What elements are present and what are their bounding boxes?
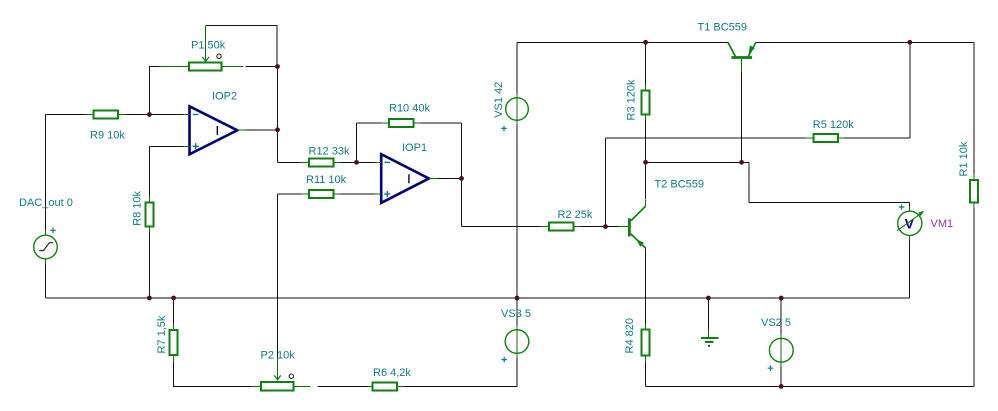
wire: R10 right lead to drop xyxy=(420,122,462,124)
wire: junction to IOP1 inverting input xyxy=(357,161,376,163)
wire: voltmeter bottom to middle rail xyxy=(909,240,911,298)
wire: T2 collector riser to 162 row xyxy=(645,162,647,199)
wire: VS2 bottom stub xyxy=(780,366,782,387)
wire: VS1 bottom to middle rail xyxy=(516,125,518,299)
transistor T1 BC559 xyxy=(728,42,756,72)
wire: R9 right to IOP2 inverting input xyxy=(126,114,184,116)
wire: T1 base vertical xyxy=(741,71,743,162)
plus mark: DAC_out xyxy=(50,228,56,234)
wire: IOP2 plus input down to R8 xyxy=(148,146,150,197)
wire: row 162 from R3 bottom to T1 base xyxy=(646,161,742,163)
wire: DAC left column vertical xyxy=(45,115,47,232)
resistor R3 120k xyxy=(642,85,650,120)
svg-text:VS3 5: VS3 5 xyxy=(501,308,531,320)
svg-text:VM1: VM1 xyxy=(931,218,954,230)
node: R3 top on supply rail xyxy=(643,40,648,45)
wire: top rail right segment xyxy=(756,41,974,43)
resistor R1 10k xyxy=(970,175,978,209)
source VS3 5 xyxy=(505,325,529,358)
svg-text:R11 10k: R11 10k xyxy=(306,174,347,186)
resistor R10 40k xyxy=(381,119,420,127)
potentiometer P1 50k xyxy=(159,26,243,70)
wire: DAC top node to R9 xyxy=(46,114,86,116)
svg-text:R12 33k: R12 33k xyxy=(309,146,350,158)
node: VS2 top on middle rail xyxy=(779,296,784,301)
wire: R4 bottom to bottom-right rail xyxy=(645,361,647,387)
transistor T2 BC559 xyxy=(618,200,646,248)
svg-text:IOP1: IOP1 xyxy=(402,142,427,154)
wire: R2 right to T2 base junction and base xyxy=(579,226,618,228)
svg-text:T1 BC559: T1 BC559 xyxy=(698,22,748,34)
wire: right riser up to top rail xyxy=(909,42,911,138)
svg-text:R3 120k: R3 120k xyxy=(625,79,637,120)
node: R5 riser on supply rail xyxy=(907,40,912,45)
wire: P1 right lead to junction xyxy=(246,66,278,68)
wire: VS3 top stub xyxy=(516,298,518,326)
node: R3 bottom / T2 collector xyxy=(643,160,648,165)
wire: voltmeter top stub xyxy=(909,202,911,207)
wire: R10 branch riser xyxy=(356,123,358,162)
wire: jog right of T1 base junction xyxy=(742,161,749,163)
wire: R7 bottom corner to P2 xyxy=(174,361,252,387)
wire: R11 left corner xyxy=(278,193,302,195)
svg-text:P2 10k: P2 10k xyxy=(261,350,296,362)
svg-text:R8 10k: R8 10k xyxy=(131,190,143,225)
resistor R11 10k xyxy=(301,190,340,198)
node: IOP1 inverting summing xyxy=(354,160,359,165)
wire: R11 node down to P2 wiper xyxy=(277,194,279,358)
wire: R3 bottom lead to junction xyxy=(645,115,647,163)
svg-text:V: V xyxy=(905,215,915,231)
wire: output junction down to R12 row xyxy=(277,130,279,163)
node: T1 base xyxy=(739,160,744,165)
wire: T2 base junction riser to R5 row xyxy=(605,138,607,226)
resistor R4 820 xyxy=(642,324,650,362)
wire: bottom-right rail xyxy=(646,386,974,388)
wire: DAC bottom to ground rail xyxy=(45,263,47,299)
potentiometer P2 10k xyxy=(252,357,311,391)
svg-text:VS1 42: VS1 42 xyxy=(493,82,505,118)
wire: IOP1 output to junction xyxy=(438,177,462,179)
wire: VM row horizontal to voltmeter xyxy=(749,201,910,203)
svg-text:R4 820: R4 820 xyxy=(624,318,636,353)
wire: riser to R10 left lead xyxy=(357,122,381,124)
wire: R12 right to IOP1 minus junction xyxy=(339,161,357,163)
svg-text:IOP2: IOP2 xyxy=(212,91,237,103)
svg-text:R6 4,2k: R6 4,2k xyxy=(373,367,411,379)
resistor R12 33k xyxy=(301,158,340,166)
voltmeter VM1 xyxy=(897,207,924,241)
svg-text:DAC_out 0: DAC_out 0 xyxy=(19,197,73,209)
plus mark: VS1 xyxy=(501,126,507,132)
wire: P1 right junction down to output junction xyxy=(277,67,279,130)
svg-text:VS2 5: VS2 5 xyxy=(761,317,791,329)
wire: R3 top lead to rail xyxy=(645,42,647,86)
node: R9/P1/IOP2 inverting xyxy=(147,112,152,117)
wire: R7 top lead xyxy=(173,298,175,325)
svg-text:T2 BC559: T2 BC559 xyxy=(655,179,705,191)
ground xyxy=(701,331,719,347)
wire: P1 top feedback loop xyxy=(206,26,278,67)
junction node dots xyxy=(147,40,912,389)
wire: IOP2 noninverting input horizontal xyxy=(149,145,183,147)
source VS1 42 xyxy=(506,93,529,125)
wire: P2 to R6 black segment xyxy=(318,386,369,388)
svg-text:R1 10k: R1 10k xyxy=(958,141,970,176)
wire: VS2 top stub xyxy=(780,298,782,335)
plus polarity marks xyxy=(50,126,904,371)
wire: VS3 bottom corner to bottom-left rail xyxy=(403,358,518,387)
node: R7 on middle rail xyxy=(171,296,176,301)
wire: ground stem xyxy=(707,298,709,331)
node: T2 base xyxy=(603,224,608,229)
wire: T2 emitter drop to R4 xyxy=(645,248,647,325)
wire: R8 bottom to middle rail xyxy=(148,232,150,299)
resistor R6 4,2k xyxy=(369,383,404,391)
node: R8 on middle rail xyxy=(147,296,152,301)
resistor R5 120k xyxy=(805,134,844,142)
plus mark: VM1 xyxy=(899,204,905,210)
resistor R9 10k xyxy=(86,111,126,119)
svg-text:P1 50k: P1 50k xyxy=(191,39,226,51)
svg-text:R5 120k: R5 120k xyxy=(813,119,854,131)
op-amp IOP1 xyxy=(375,154,438,203)
node: IOP1 output xyxy=(459,176,464,181)
wire: IOP1 output junction down xyxy=(461,178,463,226)
wire: R5 row horizontal from riser to R5 xyxy=(606,137,806,139)
node: ground on middle rail xyxy=(706,296,711,301)
wire: IOP2 output to feedback junction xyxy=(246,129,278,131)
wire: jog down to VM row xyxy=(748,162,750,202)
svg-text:R10 40k: R10 40k xyxy=(389,102,430,114)
svg-text:R2 25k: R2 25k xyxy=(558,209,593,221)
wire: corner to R12 left lead xyxy=(278,161,302,163)
source VS2 5 xyxy=(769,334,793,367)
resistor R8 10k xyxy=(146,196,154,233)
wire: R1 column lower xyxy=(973,208,975,387)
wire: top rail left segment xyxy=(517,41,728,43)
plus mark: VS2 xyxy=(768,365,774,371)
node: VS2 bottom on lower rail xyxy=(779,384,784,389)
plus mark: VS3 xyxy=(501,357,507,363)
wire: VS1 top stub xyxy=(516,42,518,93)
resistor R2 25k xyxy=(541,223,580,231)
wire: middle horizontal rail y=298 xyxy=(46,297,910,299)
node: IOP2 output feedback xyxy=(275,127,280,132)
node: P1 right terminal xyxy=(275,64,280,69)
wire: corner to R2 left lead xyxy=(462,226,541,228)
wire: R1 column upper xyxy=(973,42,975,175)
wire: P1 left corner down to inverting node xyxy=(149,67,160,115)
wire: R5 right lead to right riser xyxy=(844,137,910,139)
svg-text:R7 1,5k: R7 1,5k xyxy=(156,315,168,353)
wire: R11 right to IOP1 plus input xyxy=(339,193,375,195)
op-amp IOP2 xyxy=(184,106,246,154)
node: VS1/VS3 on middle rail xyxy=(515,296,520,301)
source DAC_out 0 xyxy=(34,231,58,264)
svg-text:R9 10k: R9 10k xyxy=(90,129,125,141)
resistor R7 1,5k xyxy=(170,324,178,362)
wire: R10 drop to IOP1 output junction xyxy=(461,123,463,178)
